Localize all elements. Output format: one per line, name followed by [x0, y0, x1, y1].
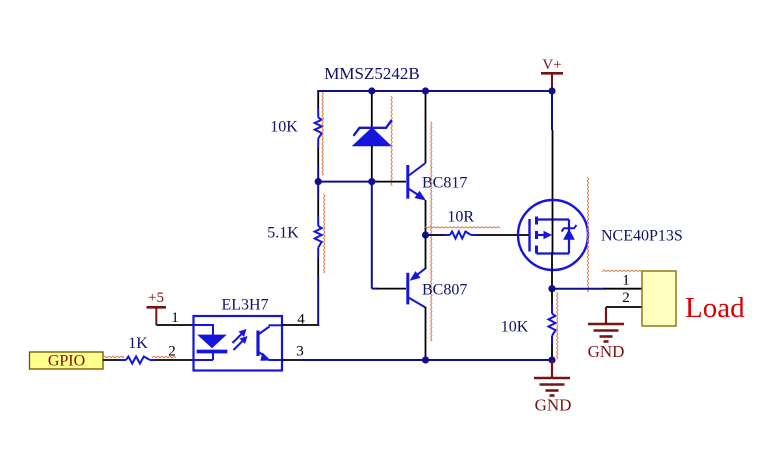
wire: 10R left — [426, 234, 445, 236]
squiggle along zener right — [391, 96, 392, 186]
wire: down to BC807 base — [372, 182, 406, 289]
wire: GPIO to 1K resistor — [103, 359, 120, 361]
wire: 5.1K to mid node — [317, 182, 319, 217]
pin: BC807 emitter up — [425, 235, 427, 269]
opto internal anode wiring — [194, 324, 214, 336]
pin number 1 (opto) — [171, 310, 179, 326]
transistor BC807 — [408, 268, 426, 307]
svg-text:GND: GND — [588, 342, 625, 361]
label MMSZ5242B — [324, 64, 419, 83]
svg-text:MMSZ5242B: MMSZ5242B — [324, 64, 419, 83]
squiggle along BC817/BC807 vertical — [431, 122, 432, 342]
pins: 10K left stubs — [317, 91, 319, 182]
ground symbol GND (load) — [588, 307, 625, 361]
port GPIO — [30, 352, 104, 370]
wire: source node to 10K — [551, 289, 553, 305]
squiggle along 10K — [322, 92, 323, 175]
junction dot mid-zener — [368, 178, 375, 185]
resistor 10K (left) — [315, 108, 322, 148]
svg-text:5.1K: 5.1K — [267, 225, 299, 242]
label BC807 — [422, 282, 467, 299]
label 10K (left) — [270, 119, 298, 136]
opto light arrow 1 — [233, 329, 247, 343]
svg-text:V+: V+ — [542, 57, 561, 73]
label 1K — [128, 335, 148, 352]
svg-text:3: 3 — [296, 344, 304, 360]
svg-text:GPIO: GPIO — [48, 353, 85, 370]
transistor BC817 — [408, 163, 427, 201]
zener diode MMSZ5242B — [353, 91, 392, 182]
svg-text:GND: GND — [535, 396, 572, 415]
pin number 2 (load) — [622, 290, 630, 306]
opto phototransistor base bar — [256, 331, 259, 357]
svg-text:1: 1 — [622, 273, 630, 289]
label EL3H7 — [221, 297, 268, 314]
label 5.1K — [267, 225, 299, 242]
power symbol +5 — [147, 290, 167, 325]
wire: 10K bottom to gnd rail — [551, 345, 553, 360]
pin 1 of optocoupler — [156, 324, 194, 326]
squiggle right of MOSFET — [587, 177, 588, 292]
ground symbol GND (bottom) — [534, 360, 571, 415]
wire: 1K to optocoupler pin 2 — [156, 359, 194, 361]
resistor 10K (right) — [549, 305, 556, 346]
junction dot 10R node — [422, 231, 429, 238]
junction dot mid-left — [315, 178, 322, 185]
power symbol V+ — [541, 57, 563, 91]
svg-text:BC807: BC807 — [422, 282, 467, 299]
junction dot bottom right — [548, 356, 555, 363]
squiggle along 5.1K — [324, 194, 325, 273]
pin number 2 (opto) — [168, 344, 176, 360]
resistor 5.1K — [315, 217, 322, 258]
label Load — [685, 292, 745, 324]
junction dot V+ rail — [548, 87, 555, 94]
opto LED cathode bar — [197, 350, 228, 354]
svg-text:1K: 1K — [128, 335, 148, 352]
connector Load box — [642, 271, 676, 326]
junction dot source node — [548, 285, 555, 292]
label 10R — [447, 209, 474, 226]
wire: top V+ rail — [317, 90, 552, 92]
pin number 3 (opto) — [296, 344, 304, 360]
svg-text:10K: 10K — [270, 119, 298, 136]
net squiggle on GPIO wire — [103, 356, 176, 357]
wire: mid node horizontal — [318, 181, 406, 183]
pin: Load 1 — [604, 288, 642, 290]
pin number 1 (load) — [622, 273, 630, 289]
wire: 10R to MOSFET gate — [477, 234, 529, 236]
opto phototransistor collector — [258, 325, 283, 335]
pin 4 of optocoupler — [282, 324, 319, 326]
squiggle above Load pin1 — [602, 270, 641, 271]
svg-text:10R: 10R — [447, 209, 474, 226]
label NCE40P13S — [601, 228, 683, 245]
wire: bottom rail — [302, 359, 552, 361]
svg-text:10K: 10K — [501, 319, 529, 336]
junction dot BC817 collector at rail — [422, 87, 429, 94]
optocoupler EL3H7 body — [194, 316, 283, 371]
pin: BC807 collector down — [425, 307, 427, 360]
label BC817 — [422, 175, 467, 192]
opto light arrow 2 — [234, 336, 248, 350]
resistor 1K (horizontal) — [120, 357, 156, 364]
pin: BC817 collector up — [425, 91, 427, 163]
svg-text:NCE40P13S: NCE40P13S — [601, 228, 683, 245]
pin: MOSFET source — [551, 252, 553, 289]
squiggle along 10K right — [557, 292, 558, 359]
wire: pin4 up to 5.1K — [317, 257, 319, 326]
svg-text:2: 2 — [168, 344, 176, 360]
svg-text:Load: Load — [685, 292, 745, 324]
pin: BC817 emitter down — [425, 200, 427, 235]
junction dot zener top — [368, 87, 375, 94]
svg-text:BC817: BC817 — [422, 175, 467, 192]
opto internal cathode wiring — [194, 352, 214, 361]
pin 3 of optocoupler — [282, 359, 303, 361]
opto phototransistor emitter — [258, 351, 283, 361]
label 10K (right) — [501, 319, 529, 336]
pin: Load 2 — [606, 306, 642, 308]
svg-text:EL3H7: EL3H7 — [221, 297, 268, 314]
svg-text:+5: +5 — [148, 290, 164, 306]
junction dot BC807 collector at rail — [422, 356, 429, 363]
opto LED triangle — [198, 335, 225, 348]
svg-text:4: 4 — [297, 312, 305, 328]
svg-text:1: 1 — [171, 310, 179, 326]
resistor 10R — [444, 232, 477, 239]
svg-text:2: 2 — [622, 290, 630, 306]
pin: MOSFET drain — [552, 130, 554, 218]
MOSFET NCE40P13S — [518, 200, 588, 270]
pin number 4 (opto) — [297, 312, 305, 328]
wire: drain from rail — [551, 91, 553, 130]
squiggle along gate wire — [424, 227, 500, 228]
wire: source node to Load pin 1 — [552, 288, 605, 290]
